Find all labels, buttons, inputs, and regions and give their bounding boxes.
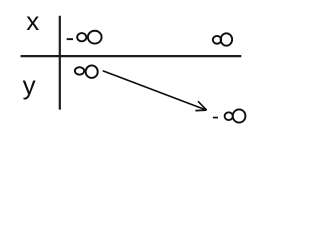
svg-text:x: x: [26, 6, 39, 36]
svg-text:y: y: [23, 70, 36, 100]
